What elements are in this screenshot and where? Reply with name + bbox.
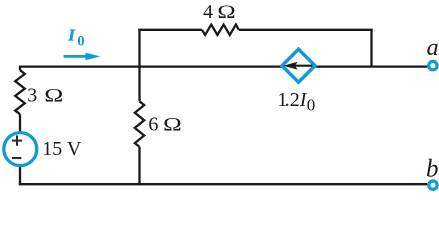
resistor R 6ohm zigzag	[135, 101, 144, 147]
svg-text:6: 6	[148, 114, 158, 136]
wire: middle branch vertical lower	[138, 147, 140, 185]
svg-text:15 V: 15 V	[42, 138, 82, 160]
svg-text:0: 0	[77, 33, 84, 49]
svg-text:Ω: Ω	[44, 85, 63, 106]
svg-text:Ω: Ω	[217, 1, 235, 23]
current arrow I0	[64, 55, 88, 58]
svg-text:3: 3	[27, 85, 37, 107]
svg-text:4: 4	[203, 1, 213, 23]
wire: left vertical top lead into 3-ohm	[19, 66, 21, 71]
wire: 15V source bottom to bottom rail	[19, 164, 21, 185]
wire: middle branch vertical upper (junction to 6-ohm)	[138, 29, 140, 102]
wire: top loop right vertical	[370, 29, 372, 67]
svg-text:b: b	[426, 155, 439, 182]
svg-text:1.2I0: 1.2I0	[277, 89, 315, 114]
svg-text:a: a	[427, 35, 439, 61]
resistor R 4ohm zigzag	[202, 25, 239, 35]
resistor R 3ohm zigzag	[15, 70, 25, 114]
wire: top rail right segment	[239, 29, 373, 31]
dependent current source diamond 1.2 I0	[282, 49, 315, 82]
wire: top rail left segment	[138, 29, 202, 31]
voltage source plus sign	[12, 135, 22, 145]
svg-text:Ω: Ω	[163, 113, 182, 134]
wire: bottom rail	[19, 183, 427, 185]
voltage source V1 15V circle	[4, 133, 37, 166]
terminal b circle	[429, 181, 437, 189]
wire: main horizontal from left loop to terminal a	[20, 65, 427, 67]
voltage source minus sign	[12, 157, 21, 159]
wire: between 3-ohm and 15V source	[19, 114, 21, 134]
dependent source arrow (points left)	[294, 65, 312, 67]
terminal a circle	[429, 61, 437, 69]
svg-text:I: I	[67, 25, 76, 44]
